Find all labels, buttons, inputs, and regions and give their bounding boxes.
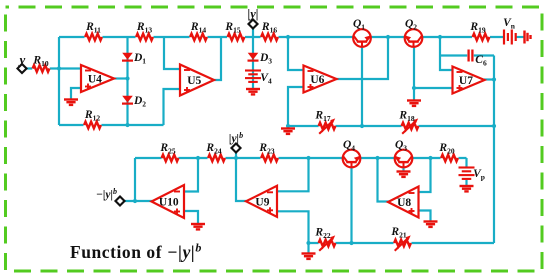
wire: U8 output to bottom row rail <box>378 158 390 202</box>
wire: Q1 base lead <box>361 46 363 126</box>
title: Function of -|y|^b <box>70 241 202 263</box>
junction: U10 output / feedback <box>133 199 137 203</box>
svg-text:R19: R19 <box>469 21 485 35</box>
wire: ground stub below bottom rail <box>307 243 309 253</box>
wire: U9 non-inverting to bottom rail <box>277 211 309 243</box>
junction: right bus / U7 output <box>492 77 496 81</box>
wire: U5 non-inverting input stub <box>164 89 181 125</box>
node -|y|^b (output terminal) <box>96 187 125 206</box>
svg-text:U6: U6 <box>310 74 324 86</box>
capacitor C6 <box>469 50 487 68</box>
transistor Q3 <box>395 139 413 167</box>
svg-text:R17: R17 <box>314 110 330 124</box>
junction: top rail / U6 inverting stub <box>286 35 290 39</box>
wire: U6 output to top rail <box>336 37 388 79</box>
resistor R20 <box>438 142 457 161</box>
ground (U8 non-inverting) <box>424 222 438 227</box>
wire: Q2 base lead to ground <box>413 46 415 100</box>
wire: U10 inverting input stub <box>184 158 198 192</box>
svg-text:R16: R16 <box>261 21 277 35</box>
transistor Q4 <box>343 139 361 167</box>
ground (Q3 base) <box>397 172 411 177</box>
resistor R24 <box>205 142 224 161</box>
variable resistor R17 <box>314 110 335 134</box>
svg-text:y: y <box>18 52 26 67</box>
wire: U5 inverting input stub <box>164 37 180 69</box>
wire: U9 output to node <box>236 158 247 201</box>
junction: Q2 base / U7 non-inverting <box>412 86 416 90</box>
svg-text:Q2: Q2 <box>405 18 417 32</box>
resistor R19 <box>469 21 489 40</box>
wire: U6 non-inverting input stub <box>288 87 304 126</box>
battery V4 <box>245 71 272 86</box>
wire: power-node stub |y|b <box>235 152 237 159</box>
junction: bottom row rail / U10 inverting <box>196 156 200 160</box>
wire: bottom row rail <box>135 157 467 159</box>
svg-text:U4: U4 <box>88 74 102 86</box>
node |y| <box>247 7 258 29</box>
junction: R12 wire / diode branch <box>125 123 129 127</box>
wire: U8 non-inverting input to ground <box>419 211 431 222</box>
svg-text:R22: R22 <box>314 227 330 241</box>
diode D2 <box>122 95 146 109</box>
svg-text:Q4: Q4 <box>343 139 355 153</box>
resistor R12 <box>84 109 101 128</box>
junction: input node / R11-R12 branch <box>57 66 61 70</box>
op-amp U6 <box>304 66 337 93</box>
wire: Q4 base lead <box>350 167 352 243</box>
svg-text:V4: V4 <box>260 72 272 86</box>
resistor R14 <box>190 21 207 40</box>
ground (below Vp) <box>460 186 474 191</box>
junction: mid rail / U6 ground branch <box>286 124 290 128</box>
diode D3 <box>248 52 273 66</box>
svg-text:R18: R18 <box>398 110 414 124</box>
wire: U4 non-inverting input to ground <box>71 88 81 99</box>
variable resistor R21 <box>390 226 410 251</box>
ground (U10 non-inverting) <box>191 224 205 229</box>
junction: bottom row rail / node <box>234 156 238 160</box>
wire: bottom rail R12 <box>59 124 164 126</box>
wire: mid rail R17-R18 <box>288 125 494 127</box>
diode D1 <box>122 52 146 66</box>
svg-text:R24: R24 <box>205 142 221 156</box>
junction: top rail / U7 inverting branch <box>438 35 442 39</box>
wire: top-right rail battery link <box>516 36 525 38</box>
ground (Q2 base) <box>407 101 421 106</box>
svg-text:Vn: Vn <box>503 17 516 31</box>
svg-text:Q3: Q3 <box>395 139 407 153</box>
wire: left feedback vertical R11-R12 <box>58 37 60 125</box>
wire: U10 non-inverting input to ground <box>184 211 198 224</box>
wire: U5 output to top rail <box>213 37 221 80</box>
svg-text:U9: U9 <box>255 196 269 208</box>
resistor R23 <box>258 142 277 161</box>
junction: bottom row rail / U8 output <box>375 156 379 160</box>
svg-text:U5: U5 <box>187 75 201 87</box>
wire: input y to U4 inverting input <box>26 67 82 69</box>
svg-text:Function of −|y|b: Function of −|y|b <box>70 241 202 263</box>
resistor R16 <box>261 21 278 40</box>
svg-text:U7: U7 <box>459 75 473 87</box>
variable resistor R18 <box>398 110 418 134</box>
battery Vp <box>459 168 485 182</box>
ground (U4 non-inverting) <box>64 100 78 105</box>
svg-text:R13: R13 <box>136 21 152 35</box>
junction: bottom-most rail / Q4 base <box>349 241 353 245</box>
svg-text:R11: R11 <box>85 21 101 35</box>
battery Vn (top right) <box>503 17 516 45</box>
resistor R10 <box>32 55 49 72</box>
wire: U6 inverting input stub <box>288 37 304 70</box>
ground (below V4) <box>246 89 260 94</box>
op-amp U5 <box>180 65 214 96</box>
node |y|^b <box>229 131 243 153</box>
wire: right vertical bus <box>493 56 495 244</box>
op-amp U9 <box>246 186 277 217</box>
junction: right bus / mid rail <box>492 124 496 128</box>
svg-text:R20: R20 <box>438 142 454 156</box>
wire: D3 / V4 branch vertical <box>252 37 254 89</box>
svg-text:R15: R15 <box>224 21 240 35</box>
wire: bottom-most rail <box>309 242 495 244</box>
svg-text:−|y|b: −|y|b <box>96 187 117 201</box>
svg-text:R12: R12 <box>84 109 100 123</box>
resistor R25 <box>159 142 178 161</box>
wire: U7 output to right bus <box>484 78 494 80</box>
svg-text:D1: D1 <box>133 52 146 66</box>
svg-text:U10: U10 <box>159 197 179 209</box>
wire: U4 output to diode chain <box>113 77 128 79</box>
svg-text:D2: D2 <box>133 95 146 109</box>
svg-text:|y|: |y| <box>247 7 258 21</box>
svg-text:R10: R10 <box>32 55 48 69</box>
wire: Q2 base junction to U7 non-inverting input <box>414 87 453 89</box>
node y (input terminal) <box>17 52 26 73</box>
junction: bottom row rail / U9 inverting <box>306 156 310 160</box>
wire: top rail <box>59 36 504 38</box>
wire: diode branch vertical D1-D2 <box>126 37 128 125</box>
svg-text:R23: R23 <box>258 142 274 156</box>
wire: U8 inverting input stub <box>419 158 431 192</box>
ground (mid rail left) <box>281 129 295 134</box>
wire: output node to U10 apex <box>124 200 153 202</box>
svg-text:R25: R25 <box>159 142 175 156</box>
op-amp U8 <box>388 187 419 218</box>
op-amp U4 <box>81 65 114 92</box>
svg-text:Vp: Vp <box>473 168 485 182</box>
wire: abs-value node stub <box>252 28 254 38</box>
transistor Q2 <box>405 18 423 47</box>
svg-text:U8: U8 <box>397 197 411 209</box>
ground (bottom rail) <box>302 254 316 259</box>
transistor Q1 <box>353 18 371 47</box>
svg-text:R14: R14 <box>190 21 206 35</box>
wire: C6 feedback left segment <box>440 54 467 56</box>
op-amp U10 <box>152 185 185 218</box>
resistor R15 <box>224 21 244 40</box>
svg-text:Q1: Q1 <box>353 18 365 32</box>
wire: U10 feedback vertical <box>134 158 136 201</box>
svg-text:R21: R21 <box>390 226 406 240</box>
variable resistor R22 <box>314 227 335 251</box>
svg-text:D3: D3 <box>259 52 272 66</box>
svg-text:|y|b: |y|b <box>229 131 243 145</box>
ground (sideways, right of Vn) <box>525 31 531 44</box>
junction: mid rail / Q1 base <box>360 124 364 128</box>
wire: Q3 base lead to ground <box>402 167 404 171</box>
wire: R20 to Vp battery <box>465 158 467 185</box>
junction: bottom-most rail / U9 branch <box>306 241 310 245</box>
op-amp U7 <box>453 67 485 94</box>
wire: U9 inverting input stub <box>277 158 309 191</box>
resistor R11 <box>85 21 102 40</box>
wire: C6 feedback right segment to output bus <box>474 54 494 56</box>
junction: U4 output / D1-D2 node <box>125 76 129 80</box>
junction: bottom row rail / U8 inverting <box>428 156 432 160</box>
junction: top rail / U6 output <box>386 35 390 39</box>
wire: top rail to U7 inverting input <box>440 37 453 70</box>
resistor R13 <box>136 21 153 40</box>
